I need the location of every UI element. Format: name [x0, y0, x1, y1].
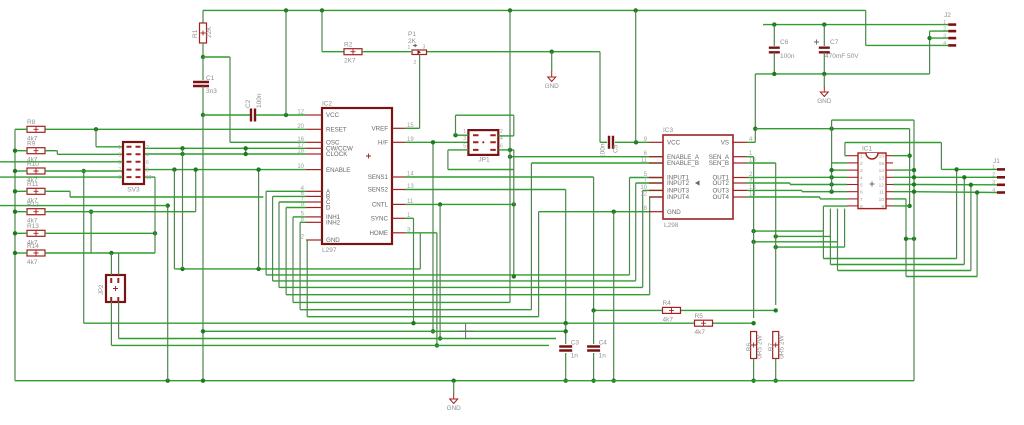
svg-text:CLOCK: CLOCK: [326, 151, 348, 158]
pin IC1 15: [886, 162, 893, 164]
svg-text:2K: 2K: [408, 38, 417, 45]
wire C5 to IC3 VCC: [615, 141, 649, 143]
svg-text:IC3: IC3: [663, 127, 674, 134]
svg-text:SEN_B: SEN_B: [709, 160, 729, 167]
svg-text:4k7: 4k7: [27, 259, 38, 266]
pin IC2 H/F (19): [392, 141, 405, 143]
svg-text:2K7: 2K7: [344, 58, 356, 65]
wire R7 bottom: [775, 359, 777, 381]
svg-text:R7: R7: [768, 342, 775, 351]
capacitor C7 (polarized): [819, 48, 830, 53]
wire R1 bottom to node: [202, 43, 204, 57]
pin IC2 CLOCK (18): [306, 153, 322, 155]
node bridge bottom: [244, 152, 248, 156]
pin IC2 VCC (12): [306, 114, 322, 116]
svg-text:0R5 2W: 0R5 2W: [757, 334, 764, 358]
node CNTL bottom junction: [438, 336, 442, 340]
svg-text:16: 16: [879, 154, 885, 160]
wire SV3 pin1 drop: [95, 129, 97, 147]
wire y=205.6 stub: [0, 205, 168, 207]
wire J1.4 row: [914, 191, 997, 194]
wire R10 to SV3.7: [45, 170, 123, 172]
pin IC3 GND (8): [649, 211, 663, 213]
op-amp IC2 L297 body: [322, 108, 392, 244]
svg-text:GND: GND: [326, 237, 340, 244]
pin IC3 INPUT4 (12): [649, 196, 663, 198]
svg-text:RESET: RESET: [326, 127, 347, 134]
pin IC1 3: [847, 169, 858, 171]
node R12/ENABLE junction: [194, 167, 198, 171]
svg-text:L298: L298: [664, 222, 679, 229]
wire net A to INPUT1: [266, 190, 306, 192]
node rail x=167.7: [166, 379, 170, 383]
node rail R10: [13, 169, 17, 173]
wire CWCCW column: [182, 148, 184, 269]
wire R6 bottom: [753, 359, 755, 381]
node rail R12: [13, 210, 17, 214]
wire C3 bottom: [565, 353, 567, 381]
wire C6 bottom: [773, 53, 775, 74]
svg-text:JP1: JP1: [478, 157, 490, 164]
svg-text:8: 8: [860, 204, 863, 210]
wire x=83.7 vertical: [83, 171, 85, 323]
node Y2 end: [564, 329, 568, 333]
pin IC2 HOME (3): [392, 232, 405, 234]
svg-text:HOME: HOME: [369, 230, 388, 237]
svg-text:GND: GND: [545, 83, 560, 90]
node SV3.2 col junction: [180, 267, 184, 271]
node C5/VS junction: [634, 140, 638, 144]
wire ENABLE net from SV3.8: [144, 169, 306, 171]
svg-text:3: 3: [423, 45, 426, 51]
wire SEN_A net: [747, 156, 754, 158]
resistor R10: [27, 168, 45, 174]
svg-text:VCC: VCC: [326, 112, 340, 119]
pin IC1 11: [886, 191, 893, 193]
svg-text:3: 3: [463, 136, 466, 142]
pin IC2 B (6): [306, 195, 322, 197]
node CLOCK/col junction: [180, 152, 184, 156]
svg-text:2: 2: [414, 60, 417, 66]
wire IC2 GND staircase: [306, 239, 307, 241]
svg-text:2: 2: [943, 27, 946, 33]
wire EN_A feed: [510, 156, 663, 158]
wire VCC drop from rail: [285, 10, 287, 115]
svg-text:R12: R12: [27, 202, 39, 209]
wire C7 bottom: [823, 53, 825, 74]
wire IC1 p12 to J1.3: [893, 184, 914, 186]
wire J1.2 row: [914, 176, 997, 178]
resistor R5: [695, 320, 713, 326]
node C3 rail junction: [564, 379, 568, 383]
wire p8 col lower: [822, 231, 824, 258]
svg-text:1: 1: [992, 165, 995, 171]
capacitor C5: [609, 136, 613, 149]
ground symbol bottom: [453, 381, 455, 394]
wire SV3.9 left: [0, 176, 123, 178]
node pC/SEN_A branch: [751, 240, 755, 244]
wire CNTL net: [405, 203, 514, 205]
svg-text:VREF: VREF: [371, 126, 388, 133]
svg-text:12: 12: [640, 192, 647, 198]
pin IC3 SEN_B (15): [733, 162, 747, 164]
wire H/F net: [405, 141, 468, 143]
node SYNC/Y1 junction: [411, 321, 415, 325]
svg-text:5: 5: [463, 144, 466, 150]
wire J2 top rail: [763, 24, 948, 26]
wire SV3.10 down: [144, 176, 155, 178]
svg-text:3: 3: [860, 168, 863, 174]
svg-text:6: 6: [500, 144, 503, 150]
wire JP1 right column: [513, 170, 515, 277]
pin IC1 13: [886, 176, 893, 178]
node pB/SEN_B branch: [774, 234, 778, 238]
svg-text:INPUT2: INPUT2: [667, 180, 690, 187]
svg-text:14: 14: [879, 168, 885, 174]
wire R9 left: [15, 150, 27, 152]
svg-text:C2: C2: [245, 99, 252, 108]
pin IC2 OSC (16): [306, 141, 322, 143]
pin IC3 ENABLE_B (11): [649, 162, 663, 164]
svg-text:J2: J2: [944, 12, 951, 19]
node JP1 pin1 junction: [453, 133, 457, 137]
wire JP1 bottom loop: [447, 150, 449, 170]
wire RESET net (R8 row): [45, 128, 306, 130]
wire R12 riser to ENABLE: [45, 211, 196, 213]
svg-text:4: 4: [860, 175, 863, 181]
svg-text:15: 15: [407, 123, 414, 129]
node HOME bottom junction: [435, 343, 439, 347]
svg-text:1n: 1n: [571, 353, 579, 360]
node GND stub junction: [550, 50, 554, 54]
node R14/JP2: [109, 251, 113, 255]
node bottom link junction: [912, 237, 916, 241]
svg-text:C3: C3: [571, 340, 580, 347]
wire bottom GND rail: [14, 129, 16, 380]
svg-text:9: 9: [881, 204, 884, 210]
wire mid run B: [963, 177, 965, 264]
resistor R2: [344, 49, 362, 55]
wire net B to INPUT2: [273, 195, 306, 197]
node C7 bottom: [822, 72, 826, 76]
svg-text:IC2: IC2: [322, 101, 333, 108]
wire P1 wiper to VREF: [419, 55, 421, 129]
wire CLOCK net from SV3.4: [144, 153, 306, 155]
svg-text:5: 5: [118, 160, 121, 166]
svg-text:P1: P1: [408, 31, 416, 38]
node top rail junction at x=322: [320, 8, 324, 12]
wire C2 left: [203, 114, 250, 116]
svg-text:VCC: VCC: [667, 140, 681, 147]
svg-text:OUT4: OUT4: [712, 194, 729, 201]
svg-text:1: 1: [118, 145, 121, 151]
wire net D to INPUT4: [286, 207, 306, 209]
svg-text:GND: GND: [447, 405, 462, 412]
svg-text:SENS1: SENS1: [368, 174, 389, 181]
svg-text:SENS2: SENS2: [368, 187, 389, 194]
svg-text:1n: 1n: [599, 353, 607, 360]
wire CNTL column: [439, 204, 441, 338]
pin IC2 C (7): [306, 201, 322, 203]
wire R1 top: [202, 10, 204, 23]
wire JP2.4 down: [118, 302, 120, 339]
pin IC3 OUT4 (14): [733, 196, 747, 198]
svg-text:C1: C1: [206, 75, 215, 82]
node rail R14: [13, 251, 17, 255]
wire IC1 p3 link: [832, 169, 847, 171]
origin crosshair mark: [458, 323, 474, 339]
svg-text:15: 15: [879, 161, 885, 167]
connector SV3: [123, 142, 144, 184]
node pE/SEN_B branch: [774, 245, 778, 249]
svg-text:3: 3: [943, 34, 946, 40]
wire mid run A: [956, 169, 958, 258]
wire R2 to P1: [362, 51, 411, 53]
svg-text:2: 2: [992, 173, 995, 179]
node p8/SEN_A branch: [751, 229, 755, 233]
svg-text:C6: C6: [780, 39, 789, 46]
node RESET/SV3 junction: [94, 127, 98, 131]
pin IC2 CNTL (11): [392, 203, 405, 205]
capacitor C6: [769, 48, 780, 53]
node R10 junction: [82, 169, 86, 173]
wire C3 column: [565, 323, 567, 344]
resistor R13: [27, 230, 45, 236]
svg-text:5: 5: [860, 183, 863, 189]
ground symbol near P1: [551, 52, 553, 72]
node C6 bottom: [772, 72, 776, 76]
capacitor C2: [251, 109, 255, 122]
svg-text:IC1: IC1: [862, 146, 873, 153]
wire SYNC net: [405, 217, 414, 219]
wire diode branch B: [776, 235, 831, 237]
svg-text:1: 1: [943, 20, 946, 26]
node IC1 p3 junction: [829, 168, 833, 172]
node top rail junction at x=286: [284, 8, 288, 12]
wire HOME net: [405, 232, 437, 234]
resistor R1: [200, 23, 207, 43]
wire J2 pin3: [930, 37, 949, 39]
node C6 top: [772, 22, 776, 26]
node x=167.7 top: [166, 203, 170, 207]
svg-text:9: 9: [118, 175, 121, 181]
svg-text:R8: R8: [27, 119, 36, 126]
svg-text:D: D: [326, 205, 331, 212]
potentiometer P1: [412, 50, 427, 55]
wire SENS2 row: [84, 322, 754, 324]
wire bottom bus Y2: [203, 330, 566, 332]
svg-text:R14: R14: [27, 243, 39, 250]
wire SENS2 net: [405, 189, 566, 191]
svg-text:0R5 2W: 0R5 2W: [779, 334, 786, 358]
resistor R4: [663, 307, 681, 313]
svg-text:R2: R2: [344, 42, 353, 49]
wire C2 right to VCC node: [256, 114, 306, 116]
node SENS2/C3 junction: [564, 321, 568, 325]
svg-text:R4: R4: [663, 300, 672, 307]
wire diode branch C: [754, 241, 838, 243]
pin IC1 10: [886, 198, 893, 200]
node top rail junction at x=636: [634, 8, 638, 12]
node top rail junction at x=510: [508, 8, 512, 12]
pin IC2 SYNC (1): [392, 217, 405, 219]
svg-text:3n3: 3n3: [206, 88, 217, 95]
wire OUT2 net: [747, 182, 790, 184]
svg-text:R5: R5: [695, 313, 704, 320]
svg-text:1: 1: [860, 154, 863, 160]
wire H/F column: [432, 142, 434, 331]
wire pC col lower: [837, 242, 839, 271]
node R6 rail junction: [751, 379, 755, 383]
wire bottom bus Y4: [111, 344, 549, 346]
pin IC2 CW/CCW (17): [306, 147, 322, 149]
pin IC1 6: [847, 191, 858, 193]
op-amp IC3 L298 body: [663, 135, 733, 219]
wire IC1 p13 to J1.2: [893, 176, 914, 178]
svg-text:8: 8: [146, 168, 149, 174]
pin IC2 SENS1 (14): [392, 176, 405, 178]
wire IC1 p14 stub: [893, 169, 914, 171]
resistor R14: [27, 250, 45, 256]
wire JP1 pin1 stub: [456, 134, 469, 136]
svg-text:100n: 100n: [256, 93, 263, 108]
node HF bottom junction: [431, 329, 435, 333]
node Y2 left junction: [201, 329, 205, 333]
wire diode branch E: [776, 246, 845, 248]
node SENS1/C4 junction: [591, 308, 595, 312]
wire IC1 p2 feed: [832, 162, 847, 164]
pin IC2 ENABLE (10): [306, 169, 322, 171]
node GND col junction: [612, 210, 616, 214]
node ENABLE col T: [256, 267, 260, 271]
node R12 junction: [89, 210, 93, 214]
svg-text:10: 10: [146, 175, 152, 181]
wire net INH2 to ENABLE_B: [300, 221, 306, 223]
wire R11 left: [15, 190, 27, 192]
node R4/R7 junction: [774, 308, 778, 312]
svg-text:2: 2: [146, 145, 149, 151]
svg-text:7: 7: [118, 168, 121, 174]
svg-text:OUT2: OUT2: [712, 180, 729, 187]
wire bottom bus Y3: [119, 338, 556, 340]
svg-text:11: 11: [641, 158, 648, 164]
node VCC pin junction: [284, 113, 288, 117]
pin IC2 VREF (15): [392, 127, 405, 129]
wire SENS1 net: [405, 176, 594, 178]
svg-text:SV3: SV3: [127, 187, 140, 194]
resistor R7: [773, 332, 779, 359]
wire OUT3 net: [747, 189, 802, 191]
node CNTL end junction: [512, 202, 516, 206]
wire R10 left: [15, 170, 27, 172]
connector JP1: [468, 130, 498, 155]
svg-text:R11: R11: [27, 181, 39, 188]
svg-text:100n: 100n: [780, 53, 795, 60]
pin IC1 14: [886, 169, 893, 171]
svg-text:2: 2: [500, 129, 503, 135]
node IC1 feed column: [829, 127, 833, 131]
wire VS to IC1 rail: [755, 128, 909, 130]
wire mid run C: [970, 185, 972, 271]
wire JP2.2 up stub: [118, 253, 120, 275]
wire C7 top drop: [823, 25, 825, 46]
svg-text:11: 11: [879, 190, 884, 196]
wire C4 bottom: [593, 353, 595, 381]
node ENABLE col top: [256, 167, 260, 171]
svg-text:4: 4: [992, 188, 995, 194]
resistor R12: [27, 209, 45, 215]
node J1.3 junction: [969, 183, 973, 187]
wire top VCC rail: [203, 9, 866, 11]
pin IC3 VS (4): [733, 141, 747, 143]
pin IC2 SENS2 (13): [392, 189, 405, 191]
pin IC2 D (9): [306, 207, 322, 209]
svg-text:JP2: JP2: [99, 284, 105, 295]
node OUT3 dot: [829, 190, 833, 194]
wire IC1 outer rect: [831, 120, 833, 192]
node R1/C1/OSC junction: [201, 55, 205, 59]
node VS junction: [753, 127, 757, 131]
pin IC2 RESET (20): [306, 128, 322, 130]
node CWCCW/col junction: [180, 146, 184, 150]
wire R9 to SV3.3: [45, 150, 57, 152]
connector JP2: [106, 275, 125, 302]
pin IC3 OUT1 (2): [733, 177, 747, 179]
pin IC1 16: [886, 155, 893, 157]
wire pB col lower: [829, 236, 831, 264]
pin IC3 VCC (9): [649, 141, 663, 143]
node JP1 pin6 junction: [508, 148, 512, 152]
resistor R8: [27, 126, 45, 132]
diode array IC1 body: [858, 153, 886, 209]
svg-text:GND: GND: [667, 209, 681, 216]
node R7 rail junction: [774, 379, 778, 383]
wire IC1 p11 to J1.4: [893, 191, 914, 193]
resistor R11: [27, 188, 45, 194]
pin IC1 7: [847, 198, 858, 200]
node p14 dot: [912, 168, 916, 172]
node J1.2 junction: [962, 175, 966, 179]
svg-text:12: 12: [879, 183, 885, 189]
wire VCC drop to JP1: [509, 10, 511, 302]
pin IC1 8: [847, 205, 858, 207]
svg-text:12: 12: [297, 110, 304, 116]
pin IC3 ENABLE_A (6): [649, 156, 663, 158]
node OUT1 dot: [829, 175, 833, 179]
wire R12 left: [15, 211, 27, 213]
svg-text:1: 1: [463, 129, 466, 135]
pin IC3 INPUT3 (10): [649, 189, 663, 191]
wire IC3 GND net: [614, 211, 649, 213]
wire x=91.1 vertical: [90, 212, 92, 253]
node IC1 p9: [907, 204, 911, 208]
pin IC3 OUT2 (3): [733, 182, 747, 184]
pin IC3 INPUT1 (5): [649, 177, 663, 179]
wire R8 left: [15, 128, 27, 130]
node C4 rail junction: [591, 379, 595, 383]
resistor R9: [27, 148, 45, 154]
wire JP1 pin5 stub: [448, 149, 469, 151]
node IC3 GND rail junction: [612, 379, 616, 383]
svg-text:C4: C4: [599, 340, 608, 347]
capacitor C1: [193, 82, 209, 86]
pin IC2 INH2 (8): [306, 221, 322, 223]
svg-text:L297: L297: [322, 247, 337, 254]
node EN_A tap: [508, 155, 512, 159]
wire OUT4 net: [747, 196, 820, 198]
wire x=167.7 vertical: [167, 206, 169, 381]
wire CWCCW-CLOCK bridge: [245, 148, 247, 154]
